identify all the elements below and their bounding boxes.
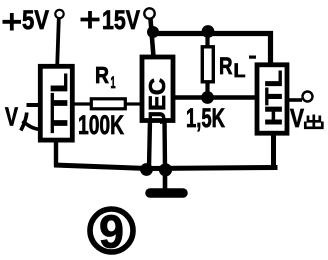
svg-text:1,5K: 1,5K [186, 103, 225, 133]
resistor RL [202, 47, 213, 82]
svg-text:HTL: HTL [261, 70, 287, 126]
figure number 9 circled [90, 209, 133, 252]
block TTL [40, 66, 72, 140]
artifact dash near RL [249, 56, 256, 59]
node RL bottom junction [201, 91, 214, 104]
svg-text:5V: 5V [22, 5, 49, 35]
svg-text:V: V [290, 103, 305, 133]
svg-text:9: 9 [99, 206, 124, 258]
node RL top junction [202, 25, 215, 38]
wire top rail to HTL [151, 34, 271, 66]
node ground junction 1 [140, 163, 153, 176]
svg-text:1: 1 [111, 73, 116, 92]
wire Vin input [27, 103, 41, 107]
svg-text:L: L [234, 61, 246, 82]
svg-text:JEC: JEC [144, 78, 170, 124]
ground [150, 188, 183, 198]
block HTL [257, 65, 287, 133]
wire bottom rail [54, 165, 278, 169]
svg-text:15V: 15V [102, 5, 140, 35]
block JEC [142, 57, 173, 121]
terminal +5V [55, 10, 63, 18]
wire R1 to JEC [125, 102, 141, 105]
node ground junction 2 [159, 163, 172, 176]
svg-text:100K: 100K [78, 110, 124, 140]
wire +5V to TTL [57, 19, 59, 67]
svg-text:R: R [95, 62, 109, 88]
wire HTL output stub [288, 98, 302, 102]
resistor R1 [91, 99, 125, 109]
terminal Vout [303, 92, 313, 102]
wire RL bottom pin [205, 82, 209, 97]
wire TTL to R1 [73, 102, 92, 105]
svg-text:V: V [5, 102, 18, 132]
label Vout glyph (out) [305, 115, 322, 128]
wire JEC right to HTL [174, 95, 256, 100]
node +15V junction [147, 26, 159, 38]
wire ground stem [163, 172, 168, 190]
wire TTL bottom pin [54, 140, 58, 166]
svg-text:TTL: TTL [46, 73, 72, 133]
label +5V [3, 13, 22, 31]
terminal +15V [144, 8, 154, 18]
label Vin glyph (in) [21, 113, 27, 131]
svg-text:R: R [219, 53, 233, 80]
wire JEC bottom pin 1 [149, 119, 150, 168]
wire +15V down to JEC [151, 19, 154, 57]
label +15V [81, 11, 100, 29]
wire RL top pin [205, 34, 209, 47]
wire JEC bottom pin 2 [162, 119, 167, 168]
wire HTL bottom pin [271, 132, 276, 168]
